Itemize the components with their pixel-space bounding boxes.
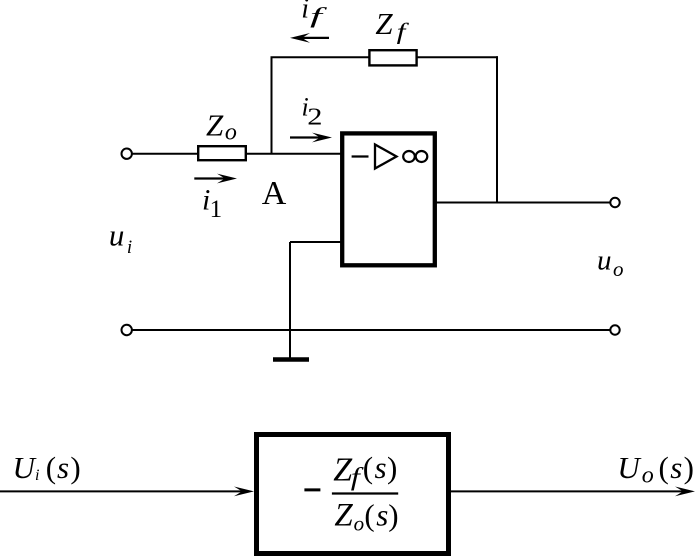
label Uo(s) bbox=[617, 450, 694, 489]
svg-text:u: u bbox=[109, 218, 125, 253]
wire feedback top left (to Zf) bbox=[271, 56, 371, 58]
svg-text:(: ( bbox=[46, 450, 56, 485]
svg-text:(: ( bbox=[659, 450, 669, 485]
svg-text:): ) bbox=[684, 450, 694, 485]
label i1 bbox=[202, 184, 222, 224]
label Ui(s) bbox=[13, 450, 81, 485]
ground bbox=[273, 357, 309, 362]
svg-text:o: o bbox=[225, 120, 237, 146]
current arrow i1 bbox=[194, 174, 237, 184]
label i2 bbox=[302, 93, 323, 131]
resistor Zf bbox=[369, 50, 416, 65]
wire op-amp output bbox=[435, 202, 611, 204]
current arrow i2 bbox=[290, 133, 332, 143]
wire input terminal to Zo bbox=[133, 153, 199, 155]
bottom right terminal bbox=[610, 325, 619, 334]
svg-text:s: s bbox=[57, 450, 69, 485]
svg-text:): ) bbox=[388, 498, 398, 533]
svg-text:o: o bbox=[354, 512, 365, 536]
label uo bbox=[597, 245, 624, 281]
svg-text:o: o bbox=[642, 463, 654, 489]
signal arrow Uo(s) out of block bbox=[451, 487, 695, 497]
svg-text:i: i bbox=[127, 237, 132, 258]
svg-text:i: i bbox=[35, 467, 39, 484]
output terminal (upper right) bbox=[610, 198, 619, 207]
wire feedback left vertical (node A up) bbox=[271, 57, 273, 155]
svg-text:o: o bbox=[613, 257, 624, 281]
svg-text:(: ( bbox=[364, 498, 374, 533]
wire feedback top right (Zf to right vertical) bbox=[417, 56, 498, 58]
svg-text:u: u bbox=[597, 245, 612, 277]
svg-text:A: A bbox=[262, 175, 287, 212]
current arrow if (points left) bbox=[290, 33, 329, 43]
svg-text:U: U bbox=[617, 450, 642, 485]
wire bottom rail bbox=[133, 329, 611, 331]
svg-text:s: s bbox=[670, 450, 682, 485]
label Zo bbox=[206, 108, 237, 146]
label ui bbox=[109, 218, 132, 259]
wire feedback right vertical (down to output) bbox=[496, 56, 498, 202]
svg-text:Z: Z bbox=[334, 497, 353, 533]
svg-text:2: 2 bbox=[307, 105, 322, 131]
svg-text:): ) bbox=[70, 450, 80, 485]
svg-text:U: U bbox=[13, 450, 38, 485]
svg-text:Z: Z bbox=[375, 6, 393, 41]
svg-text:s: s bbox=[375, 450, 387, 485]
signal arrow Ui(s) into block bbox=[0, 487, 254, 497]
svg-text:1: 1 bbox=[210, 196, 223, 223]
svg-text:Z: Z bbox=[206, 108, 224, 143]
wire ground vertical bbox=[289, 242, 291, 358]
svg-text:i: i bbox=[301, 0, 309, 25]
transfer-function block -Zf(s)/Zo(s) bbox=[257, 435, 449, 554]
wire op-amp lower input bbox=[290, 241, 343, 243]
input terminal (upper left) bbox=[122, 149, 132, 159]
label if bbox=[301, 0, 327, 28]
svg-text:(: ( bbox=[363, 450, 373, 485]
svg-text:): ) bbox=[387, 450, 397, 485]
bottom left terminal bbox=[122, 325, 132, 335]
op-amp U1 bbox=[342, 133, 435, 265]
wire Zo to op-amp input (through node A) bbox=[246, 153, 343, 155]
resistor Zo bbox=[198, 146, 246, 160]
svg-text:s: s bbox=[376, 498, 388, 533]
label Zf bbox=[375, 6, 410, 44]
